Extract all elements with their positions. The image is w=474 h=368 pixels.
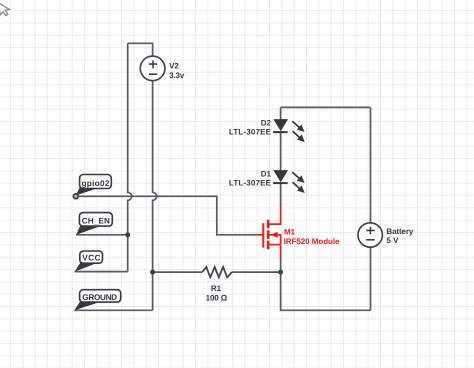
wire V2 bottom vertical with hop bbox=[153, 81, 157, 311]
wire top V2 loop bbox=[128, 43, 153, 56]
net flag CH_EN bbox=[76, 213, 112, 235]
svg-text:V2: V2 bbox=[169, 62, 179, 71]
wire R1 left bbox=[153, 271, 203, 273]
svg-text:3.3v: 3.3v bbox=[169, 71, 185, 80]
junction R1 / V2 vertical bbox=[150, 270, 155, 275]
wire gpio02 to gate bbox=[76, 196, 254, 235]
net flag gpio02 bbox=[73, 175, 111, 199]
wire source to bottom rail bbox=[281, 263, 371, 311]
svg-text:Battery: Battery bbox=[386, 227, 413, 236]
wire GROUND horizontal bbox=[74, 309, 152, 311]
wire left vertical with hop bbox=[128, 43, 132, 271]
wire LED top rail bbox=[281, 106, 371, 108]
wire CH_EN horizontal bbox=[76, 234, 128, 236]
svg-text:R1: R1 bbox=[211, 284, 222, 293]
junction CH_EN / left vertical bbox=[125, 232, 130, 237]
net flag GROUND bbox=[74, 290, 120, 311]
svg-text:GROUND: GROUND bbox=[82, 293, 117, 302]
svg-text:LTL-307EE: LTL-307EE bbox=[229, 179, 272, 188]
voltage source V2 bbox=[140, 56, 185, 81]
svg-text:gpio02: gpio02 bbox=[82, 179, 110, 188]
svg-text:IRF520 Module: IRF520 Module bbox=[284, 237, 340, 246]
mouse cursor bbox=[0, 1, 10, 16]
wire D2 anode stub bbox=[280, 107, 282, 119]
transistor M1 (IRF520 module, highlighted red) bbox=[254, 202, 341, 263]
LED D2 bbox=[229, 119, 305, 142]
resistor R1 bbox=[202, 267, 232, 302]
svg-text:CH_EN: CH_EN bbox=[82, 217, 110, 226]
battery bbox=[358, 223, 414, 247]
wire battery top bbox=[370, 107, 372, 222]
wire VCC horizontal bbox=[75, 271, 128, 273]
wire D2 cathode to D1 anode bbox=[280, 132, 282, 171]
LED D1 bbox=[229, 170, 305, 193]
junction source / R1 bbox=[278, 270, 283, 275]
svg-text:D2: D2 bbox=[261, 119, 272, 128]
wire R1 right bbox=[232, 271, 281, 273]
svg-text:LTL-307EE: LTL-307EE bbox=[229, 128, 272, 137]
svg-text:VCC: VCC bbox=[82, 253, 100, 262]
wire battery bottom bbox=[370, 247, 372, 310]
svg-text:100 Ω: 100 Ω bbox=[206, 293, 228, 302]
wire D1 cathode to drain bbox=[280, 183, 282, 202]
net flag VCC bbox=[75, 251, 103, 272]
svg-text:5 V: 5 V bbox=[386, 236, 399, 245]
svg-text:D1: D1 bbox=[261, 170, 272, 179]
svg-text:M1: M1 bbox=[284, 227, 296, 236]
